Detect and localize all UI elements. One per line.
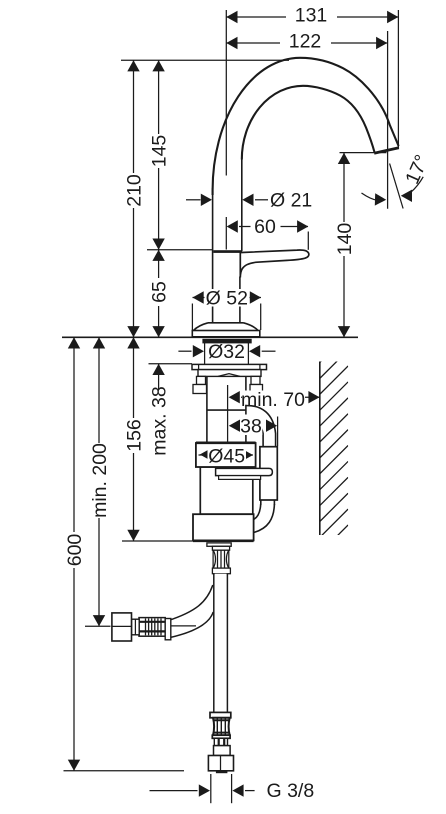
hot hose neck [132, 619, 140, 635]
bottom hex nut [208, 756, 233, 774]
dimension min 70 [229, 389, 320, 411]
svg-text:145: 145 [149, 135, 171, 168]
check valve pipe lower [261, 500, 275, 505]
mounting flange lower bar [198, 370, 261, 377]
dimension 131 [226, 4, 398, 26]
straight hose [214, 574, 228, 713]
bottom block bold base [193, 540, 254, 542]
dimension 156 [122, 337, 193, 541]
svg-text:max. 38: max. 38 [149, 386, 171, 455]
dimension 65 [149, 250, 171, 338]
deck line [62, 336, 358, 338]
extension lines diameter 32 [205, 340, 249, 365]
deck bottom extension line [149, 363, 193, 365]
17 degree left arrow [362, 193, 387, 206]
extension line lever top [147, 249, 212, 251]
dimension 60 [227, 216, 309, 238]
extension line right 131 [397, 10, 399, 149]
body mid section [200, 467, 253, 514]
dimension 145 [149, 60, 171, 250]
flange hanger left [197, 376, 206, 384]
dimension 122 [226, 30, 387, 52]
svg-text:Ø32: Ø32 [208, 341, 245, 363]
extension line lever tip [307, 232, 309, 250]
wall hatching [320, 334, 348, 553]
hose connector hourglass [213, 550, 229, 568]
escutcheon rim [192, 331, 259, 337]
extension line pipe outer [277, 417, 279, 447]
elbow outer [254, 504, 275, 533]
extension line right 122 / 17deg reference [387, 31, 389, 209]
svg-text:min. 70: min. 70 [241, 389, 305, 411]
lever hub bar [213, 250, 242, 253]
bracket plate [216, 468, 273, 475]
dimension 140 [334, 153, 356, 337]
17 degree right arrow [401, 177, 423, 202]
dimension diameter 32 [178, 341, 275, 363]
svg-text:G 3/8: G 3/8 [267, 780, 315, 802]
flange chevron [218, 374, 240, 377]
svg-text:210: 210 [123, 174, 145, 207]
hot hose crimp barrel [132, 618, 197, 640]
dimension 600 [64, 337, 185, 771]
extension line outlet level [340, 152, 387, 154]
center axis extension line lower [225, 217, 227, 250]
check valve sleeve [260, 447, 277, 500]
hot hose hex nut [112, 613, 132, 641]
bracket plate lower [219, 476, 261, 480]
bottom tab [207, 543, 231, 546]
dimension max 38 [149, 364, 171, 456]
flange foot right [250, 385, 263, 394]
svg-text:38: 38 [240, 416, 262, 438]
svg-text:65: 65 [149, 281, 171, 303]
flange hanger right [251, 376, 260, 384]
curved hose inner edge [168, 612, 214, 638]
extension line spout top [121, 59, 289, 61]
dimension G 3/8 [150, 774, 315, 803]
hose connector collar [212, 546, 229, 550]
center extension line below deck [227, 385, 229, 445]
svg-text:131: 131 [295, 4, 328, 26]
svg-text:122: 122 [289, 30, 322, 52]
dimension min 200 [85, 337, 111, 626]
svg-text:600: 600 [64, 534, 86, 567]
hose bottom crimp [210, 712, 231, 755]
deck hole dark band [202, 339, 251, 344]
svg-text:156: 156 [123, 419, 145, 452]
mounting flange top bar [192, 364, 267, 369]
svg-text:Ø45: Ø45 [208, 445, 245, 467]
curved hose outer edge [168, 585, 213, 621]
wall face line [319, 362, 321, 536]
bottom block [193, 514, 254, 540]
dimension 210 [123, 60, 145, 337]
escutcheon dome [194, 323, 259, 331]
svg-text:Ø 21: Ø 21 [270, 189, 312, 211]
dimension diameter 21 [186, 189, 312, 211]
spout inner curve [241, 157, 243, 251]
spout outlet face [374, 148, 399, 153]
lever handle [240, 250, 309, 278]
17 degree slant line [390, 164, 404, 209]
valve body diameter 45 box [196, 443, 256, 468]
center axis extension line upper [225, 10, 227, 176]
svg-text:min. 200: min. 200 [89, 443, 111, 518]
svg-text:Ø 52: Ø 52 [206, 287, 248, 309]
check valve pipe upper bend [246, 406, 276, 447]
spout outer curve [213, 58, 399, 195]
svg-text:60: 60 [254, 216, 276, 238]
elbow inner [254, 504, 261, 520]
hose connector base collar [212, 568, 230, 574]
spout tube right edge below lever [239, 277, 241, 323]
body tube below flange [207, 377, 246, 442]
dimension 38 [229, 415, 277, 438]
svg-text:140: 140 [334, 223, 356, 256]
dimension diameter 52 [192, 287, 261, 330]
flange foot left [193, 385, 207, 394]
